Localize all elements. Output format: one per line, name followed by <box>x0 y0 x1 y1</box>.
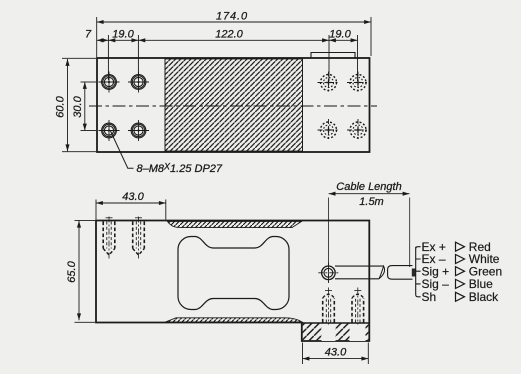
svg-text:43.0: 43.0 <box>325 347 347 359</box>
triangle Red <box>456 242 465 251</box>
tapped hole bottom-left 2 <box>128 120 149 141</box>
dimension 174.0 <box>97 17 371 57</box>
dimension row 7 / 19.0 / 122.0 / 19.0 <box>97 35 358 81</box>
triangle Black <box>456 292 465 301</box>
hidden hole top-right 1 <box>318 72 340 94</box>
dimension 43.0 bottom <box>303 343 369 365</box>
svg-text:19.0: 19.0 <box>329 28 351 40</box>
svg-text:Black: Black <box>469 290 499 304</box>
dimension 65.0 <box>75 220 96 322</box>
svg-text:30.0: 30.0 <box>72 95 84 117</box>
svg-text:7: 7 <box>85 28 92 40</box>
side view top relief strip <box>167 221 301 227</box>
hidden hole bottom-right 1 <box>318 119 340 141</box>
hidden hole top-right 2 <box>347 72 369 94</box>
side view body outline <box>96 221 369 342</box>
triangle Blue <box>456 279 465 288</box>
dimension 43.0 top <box>96 200 166 220</box>
svg-text:43.0: 43.0 <box>122 191 144 203</box>
hidden tapped hole side bottom 2 <box>352 288 364 325</box>
svg-text:Blue: Blue <box>469 277 493 291</box>
dimension 60.0 <box>62 58 96 151</box>
svg-text:Sig –: Sig – <box>422 277 450 291</box>
top view hatched section <box>165 59 303 151</box>
tapped hole top-left 1 <box>99 72 120 93</box>
cable break <box>379 266 385 279</box>
top view horizontal centerline <box>89 105 377 107</box>
tapped hole bottom-left 1 <box>99 120 120 141</box>
svg-text:60.0: 60.0 <box>55 95 67 117</box>
hidden tapped hole side bottom 1 <box>323 288 335 325</box>
triangle White <box>456 255 465 264</box>
hidden hole bottom-right 2 <box>347 119 369 141</box>
svg-text:122.0: 122.0 <box>215 28 243 40</box>
svg-text:174.0: 174.0 <box>216 11 248 23</box>
wire bracket <box>416 247 421 297</box>
hidden tapped hole side top 1 <box>103 217 115 259</box>
leader line 8-M8 <box>111 131 134 168</box>
svg-text:1.5m: 1.5m <box>359 196 383 208</box>
cable gland <box>318 263 338 283</box>
binocular cutout <box>178 237 289 310</box>
svg-text:Sh: Sh <box>422 290 437 304</box>
cable end cap <box>412 269 416 277</box>
dimension cable length <box>329 192 410 283</box>
tapped hole top-left 2 <box>128 72 149 93</box>
svg-text:Cable Length: Cable Length <box>336 181 401 193</box>
svg-text:8–M8X1.25 DP27: 8–M8X1.25 DP27 <box>137 162 223 176</box>
top view body outline <box>97 58 370 152</box>
hidden tapped hole side top 2 <box>133 217 145 259</box>
svg-text:19.0: 19.0 <box>112 28 134 40</box>
top view cable boss tab <box>311 53 355 59</box>
side view bottom relief strip <box>165 318 301 322</box>
cable segment 1 <box>335 266 384 279</box>
cable segment 2 <box>388 266 413 280</box>
dimension 30.0 <box>81 82 97 131</box>
svg-text:65.0: 65.0 <box>66 260 78 282</box>
step top edge <box>302 322 370 324</box>
triangle Green <box>456 267 465 276</box>
step section hatch <box>303 323 369 340</box>
